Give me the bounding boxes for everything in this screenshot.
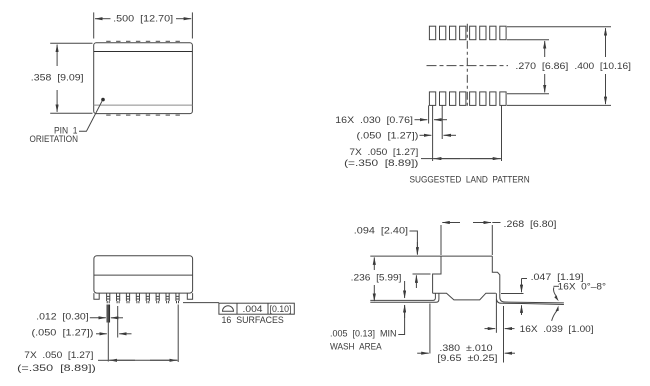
pins front view (107, 293, 180, 303)
end view body top + extension (370, 255, 492, 257)
top view inner line lower (94, 104, 193, 106)
svg-text:.005 [0.13] MIN: .005 [0.13] MIN (330, 328, 397, 339)
dim .268 extension lines (440, 225, 442, 255)
svg-text:.500 [12.70]: .500 [12.70] (113, 14, 173, 25)
dim .380 left extension (429, 304, 431, 354)
pin 1 leader (79, 101, 102, 131)
dim .094 up arrow (415, 275, 417, 288)
step extension line (413, 273, 431, 275)
dim 7X .050 line with arrows (421, 158, 433, 160)
svg-text:.400 [10.16]: .400 [10.16] (574, 61, 631, 72)
right lead outer (496, 293, 564, 304)
svg-text:.358 [9.09]: .358 [9.09] (31, 72, 84, 83)
coplanarity feature frame (219, 303, 294, 314)
dim .358 extension lines (50, 42, 92, 44)
svg-text:16X .030 [0.76]: 16X .030 [0.76] (335, 115, 413, 126)
svg-text:16 SURFACES: 16 SURFACES (222, 315, 284, 326)
svg-text:.268 [6.80]: .268 [6.80] (504, 219, 557, 230)
svg-text:16X .039 [1.00]: 16X .039 [1.00] (520, 324, 594, 335)
coplanarity symbol (223, 306, 234, 312)
pin 1 dot (101, 98, 105, 102)
angle leader lower arc (552, 310, 558, 320)
end view body left upper (433, 256, 441, 293)
svg-text:.236 [5.99]: .236 [5.99] (351, 273, 402, 284)
dim .270 extension lines (507, 39, 549, 41)
land pads top row (429, 26, 506, 40)
pin1 extension thick (106, 305, 108, 323)
seating plane line to callout (183, 302, 219, 304)
svg-text:SUGGESTED LAND PATTERN: SUGGESTED LAND PATTERN (410, 174, 530, 185)
angle leader tick (554, 285, 560, 287)
left lead outer (370, 293, 439, 302)
svg-text:7X .050 [1.27]: 7X .050 [1.27] (349, 147, 418, 158)
dim .236 arrows (373, 257, 375, 270)
wash area down arrow (404, 281, 406, 298)
top view body outline (94, 43, 193, 114)
angle leader upper arc (553, 287, 556, 297)
svg-text:7X .050 [1.27]: 7X .050 [1.27] (24, 350, 93, 361)
pin2 extension (117, 306, 119, 338)
end view body right upper (492, 256, 500, 293)
dim (.050) arrows front (96, 333, 107, 335)
dim .047 lower arrow (521, 305, 523, 315)
svg-text:.270 [6.86]: .270 [6.86] (515, 61, 568, 72)
svg-text:(.050 [1.27]): (.050 [1.27]) (357, 131, 419, 142)
dim (.050) arrows (420, 134, 432, 136)
dim .268 arrows (442, 222, 460, 224)
pin1 extension thin (107, 323, 109, 362)
pad extension line pad8 (501, 105, 503, 161)
pin end dashes top (106, 40, 180, 42)
svg-text:[9.65 ±0.25]: [9.65 ±0.25] (437, 353, 497, 364)
dim .039 arrows (485, 328, 496, 330)
dim .380 arrows (417, 352, 429, 354)
end view body bottom (433, 293, 496, 300)
lead ext line for .039 (495, 299, 497, 333)
horizontal centerline (427, 65, 509, 67)
dim .012 arrows (90, 317, 106, 319)
svg-text:.094 [2.40]: .094 [2.40] (354, 225, 408, 236)
dim .358 arrows (56, 45, 58, 66)
left end tab (94, 293, 99, 299)
pad extension line pad2 (441, 105, 443, 139)
front view inner line (94, 274, 193, 276)
dim .047 extension line (501, 293, 524, 295)
pin8 extension (177, 305, 179, 363)
pin end dashes bottom (106, 114, 180, 116)
svg-text:16X 0°–8°: 16X 0°–8° (558, 281, 607, 292)
vertical centerline (466, 24, 468, 108)
dim 7X .050 line front (98, 359, 108, 361)
dim .094 leader (410, 231, 418, 254)
land pads bottom row (429, 92, 506, 106)
front view body (94, 256, 193, 293)
top view inner line upper (94, 51, 193, 53)
left lead inner (370, 293, 435, 300)
right end tab (187, 293, 192, 299)
svg-text:.004: .004 (243, 304, 263, 315)
svg-text:.012 [0.30]: .012 [0.30] (36, 312, 88, 323)
dim .500 extension lines (93, 12, 95, 38)
dim .400 extension lines (507, 26, 611, 28)
pad extension line pad1 left (428, 105, 430, 123)
pad extension line pad1 right (432, 105, 434, 161)
svg-text:(.050 [1.27]): (.050 [1.27]) (32, 327, 94, 338)
svg-text:(=.350 [8.89]): (=.350 [8.89]) (17, 363, 96, 374)
dim .047 upper arrow (522, 278, 528, 280)
svg-text:WASH AREA: WASH AREA (330, 342, 382, 353)
wash area up arrow and leader (398, 306, 404, 335)
right lead inner (500, 293, 564, 303)
dim 16X .030 arrows (415, 119, 428, 121)
svg-text:(=.350 [8.89]): (=.350 [8.89]) (344, 158, 418, 169)
dim .270 arrows (544, 41, 546, 57)
dim .500 arrows (95, 18, 111, 20)
svg-text:ORIETATION: ORIETATION (30, 134, 79, 145)
svg-text:[0.10]: [0.10] (270, 304, 292, 315)
dim .400 arrows (605, 28, 607, 57)
